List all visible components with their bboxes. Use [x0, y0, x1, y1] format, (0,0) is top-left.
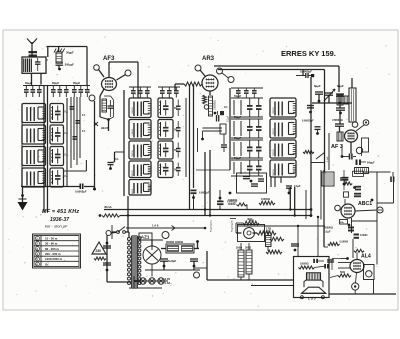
svg-text:200 - 600 m: 200 - 600 m	[45, 252, 61, 256]
svg-text:30μμF: 30μμF	[66, 51, 74, 55]
svg-text:0.1: 0.1	[115, 157, 119, 161]
svg-text:100000Ω: 100000Ω	[214, 100, 217, 110]
svg-text:50μμF: 50μμF	[234, 95, 242, 98]
svg-text:CW313: CW313	[273, 168, 275, 176]
svg-text:40μμF: 40μμF	[44, 156, 46, 163]
svg-text:CW313: CW313	[273, 148, 275, 156]
svg-text:50μμF: 50μμF	[234, 157, 242, 160]
svg-text:Gr.: Gr.	[45, 262, 49, 266]
svg-text:CW313: CW313	[273, 106, 275, 114]
svg-text:ERRES KY 159.: ERRES KY 159.	[281, 49, 336, 58]
svg-text:8+8μF: 8+8μF	[168, 259, 176, 263]
svg-text:0.1μF: 0.1μF	[327, 156, 329, 162]
svg-text:50000Ω: 50000Ω	[324, 227, 333, 230]
svg-text:ABC1: ABC1	[358, 201, 372, 207]
svg-text:30 - 90 m: 30 - 90 m	[45, 242, 58, 246]
svg-text:50μμF: 50μμF	[234, 116, 242, 119]
svg-text:17Ω: 17Ω	[266, 227, 272, 231]
svg-text:4kΩ: 4kΩ	[247, 217, 253, 221]
svg-text:CW312: CW312	[132, 128, 134, 136]
svg-text:MF = 451 KHz: MF = 451 KHz	[42, 209, 79, 215]
svg-text:470000Ω: 470000Ω	[332, 118, 343, 122]
svg-text:0.1μF: 0.1μF	[227, 115, 230, 122]
svg-text:CW312: CW312	[132, 149, 134, 157]
svg-text:15 - 50 m: 15 - 50 m	[45, 237, 58, 241]
svg-text:30μμF: 30μμF	[73, 82, 81, 85]
svg-text:500μμF: 500μμF	[52, 176, 54, 184]
svg-text:AZ1: AZ1	[141, 235, 150, 240]
svg-text:1936-37: 1936-37	[50, 217, 70, 223]
svg-text:3000Ω: 3000Ω	[228, 203, 236, 206]
svg-text:300Ω: 300Ω	[245, 247, 251, 250]
svg-text:0.0005μF: 0.0005μF	[300, 70, 312, 74]
svg-text:50Ω: 50Ω	[340, 270, 345, 274]
svg-text:0.0002μF: 0.0002μF	[75, 190, 87, 194]
svg-text:Regeling 5a: Regeling 5a	[211, 220, 213, 232]
svg-text:10000Ω: 10000Ω	[261, 198, 270, 201]
svg-text:500μμF: 500μμF	[65, 63, 75, 67]
svg-text:80 - 200 m: 80 - 200 m	[45, 247, 59, 251]
svg-text:40μμF: 40μμF	[44, 113, 46, 120]
svg-text:500μμF: 500μμF	[52, 112, 54, 120]
svg-text:50μμF: 50μμF	[234, 137, 242, 140]
svg-text:HEAT: HEAT	[101, 126, 109, 130]
svg-text:0.1: 0.1	[224, 105, 228, 109]
svg-text:10000Ω: 10000Ω	[228, 199, 237, 202]
svg-text:40mA: 40mA	[104, 205, 112, 209]
svg-text:CW312: CW312	[132, 106, 134, 114]
svg-text:230: 230	[96, 249, 102, 253]
svg-text:Regeling 5b: Regeling 5b	[232, 220, 234, 232]
svg-text:30μμF: 30μμF	[25, 82, 33, 85]
svg-text:8μμF: 8μμF	[337, 84, 344, 88]
svg-text:500μμF: 500μμF	[52, 133, 54, 141]
svg-text:0.0001: 0.0001	[360, 234, 368, 237]
svg-text:L S 5: L S 5	[308, 296, 316, 300]
svg-text:30μμF: 30μμF	[52, 82, 60, 85]
svg-text:1000-2000 m: 1000-2000 m	[45, 257, 63, 261]
svg-text:0.1μF: 0.1μF	[324, 231, 331, 234]
svg-text:CW312: CW312	[132, 188, 134, 196]
svg-text:40μμF: 40μμF	[44, 177, 46, 184]
svg-text:84μμF: 84μμF	[367, 161, 375, 165]
svg-text:40μμF: 40μμF	[44, 134, 46, 141]
svg-text:0.00005: 0.00005	[340, 241, 349, 244]
svg-text:CW312: CW312	[132, 169, 134, 177]
svg-text:CW313: CW313	[273, 127, 275, 135]
svg-text:8μμF: 8μμF	[314, 84, 321, 88]
svg-text:kor - ston μF: kor - ston μF	[45, 224, 68, 229]
svg-text:AL4: AL4	[361, 254, 371, 260]
svg-text:AF 3: AF 3	[331, 144, 343, 150]
svg-text:1 A 6: 1 A 6	[152, 224, 159, 228]
svg-text:AR3: AR3	[202, 56, 215, 62]
svg-text:500μμF: 500μμF	[52, 155, 54, 163]
svg-text:AF3: AF3	[103, 56, 115, 62]
svg-text:0.3A: 0.3A	[165, 281, 171, 285]
svg-text:10000Ω: 10000Ω	[300, 263, 309, 266]
svg-text:3000Ω 4000Ω: 3000Ω 4000Ω	[166, 240, 184, 244]
svg-text:0.0002μF: 0.0002μF	[199, 192, 210, 195]
svg-text:0.00025μF: 0.00025μF	[302, 120, 314, 123]
